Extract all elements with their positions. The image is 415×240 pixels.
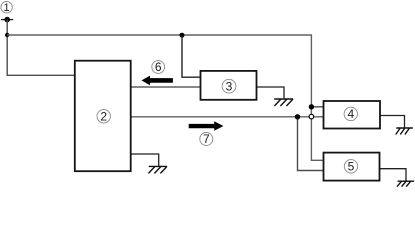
- wire top rail: [7, 35, 323, 160]
- svg-text:6: 6: [155, 60, 162, 74]
- wire branch down to block 5 lower input: [298, 117, 324, 171]
- svg-text:2: 2: [100, 110, 107, 124]
- svg-text:5: 5: [348, 160, 355, 174]
- ground (block 2): [148, 166, 167, 173]
- block 3: [201, 71, 257, 100]
- label circle 4: [344, 107, 357, 121]
- node at top rail tap: [5, 33, 9, 37]
- wire main bus block 2 to block 4: [131, 116, 324, 118]
- node junction on top rail: [180, 33, 185, 38]
- crossover no-connection circle: [309, 114, 314, 119]
- junction on right vertical rail: [309, 104, 314, 109]
- wire from terminal 1 down to block 2 input: [7, 20, 75, 76]
- wire from top rail junction to block 3: [182, 35, 201, 77]
- ground (block 3): [274, 99, 293, 106]
- arrow 6 (flow toward block 2): [142, 76, 173, 86]
- label circle 5: [344, 160, 357, 174]
- svg-text:4: 4: [347, 107, 354, 121]
- wire block 2 to block 3: [131, 86, 201, 88]
- junction on main bus: [295, 114, 300, 119]
- ground (block 4): [396, 128, 413, 135]
- wire block 3 to ground: [257, 87, 285, 99]
- block 5: [324, 153, 380, 181]
- block 2: [75, 61, 131, 172]
- label circle 1: [1, 2, 12, 15]
- svg-text:3: 3: [226, 80, 233, 94]
- wire block 4 to ground: [380, 116, 405, 128]
- block 4: [324, 101, 381, 129]
- label circle 7: [200, 132, 213, 146]
- svg-text:7: 7: [203, 132, 210, 146]
- label circle 6: [152, 60, 165, 74]
- label circle 3: [222, 79, 236, 93]
- wire block 5 to ground: [380, 169, 407, 181]
- terminal 1: [1, 17, 13, 23]
- label circle 2: [97, 110, 110, 124]
- ground (block 5): [397, 181, 414, 186]
- wire block 2 to ground: [131, 154, 159, 166]
- wire branch to block 4 upper input: [311, 106, 323, 108]
- svg-text:1: 1: [4, 2, 10, 14]
- arrow 7 (flow toward block 4): [189, 121, 224, 131]
